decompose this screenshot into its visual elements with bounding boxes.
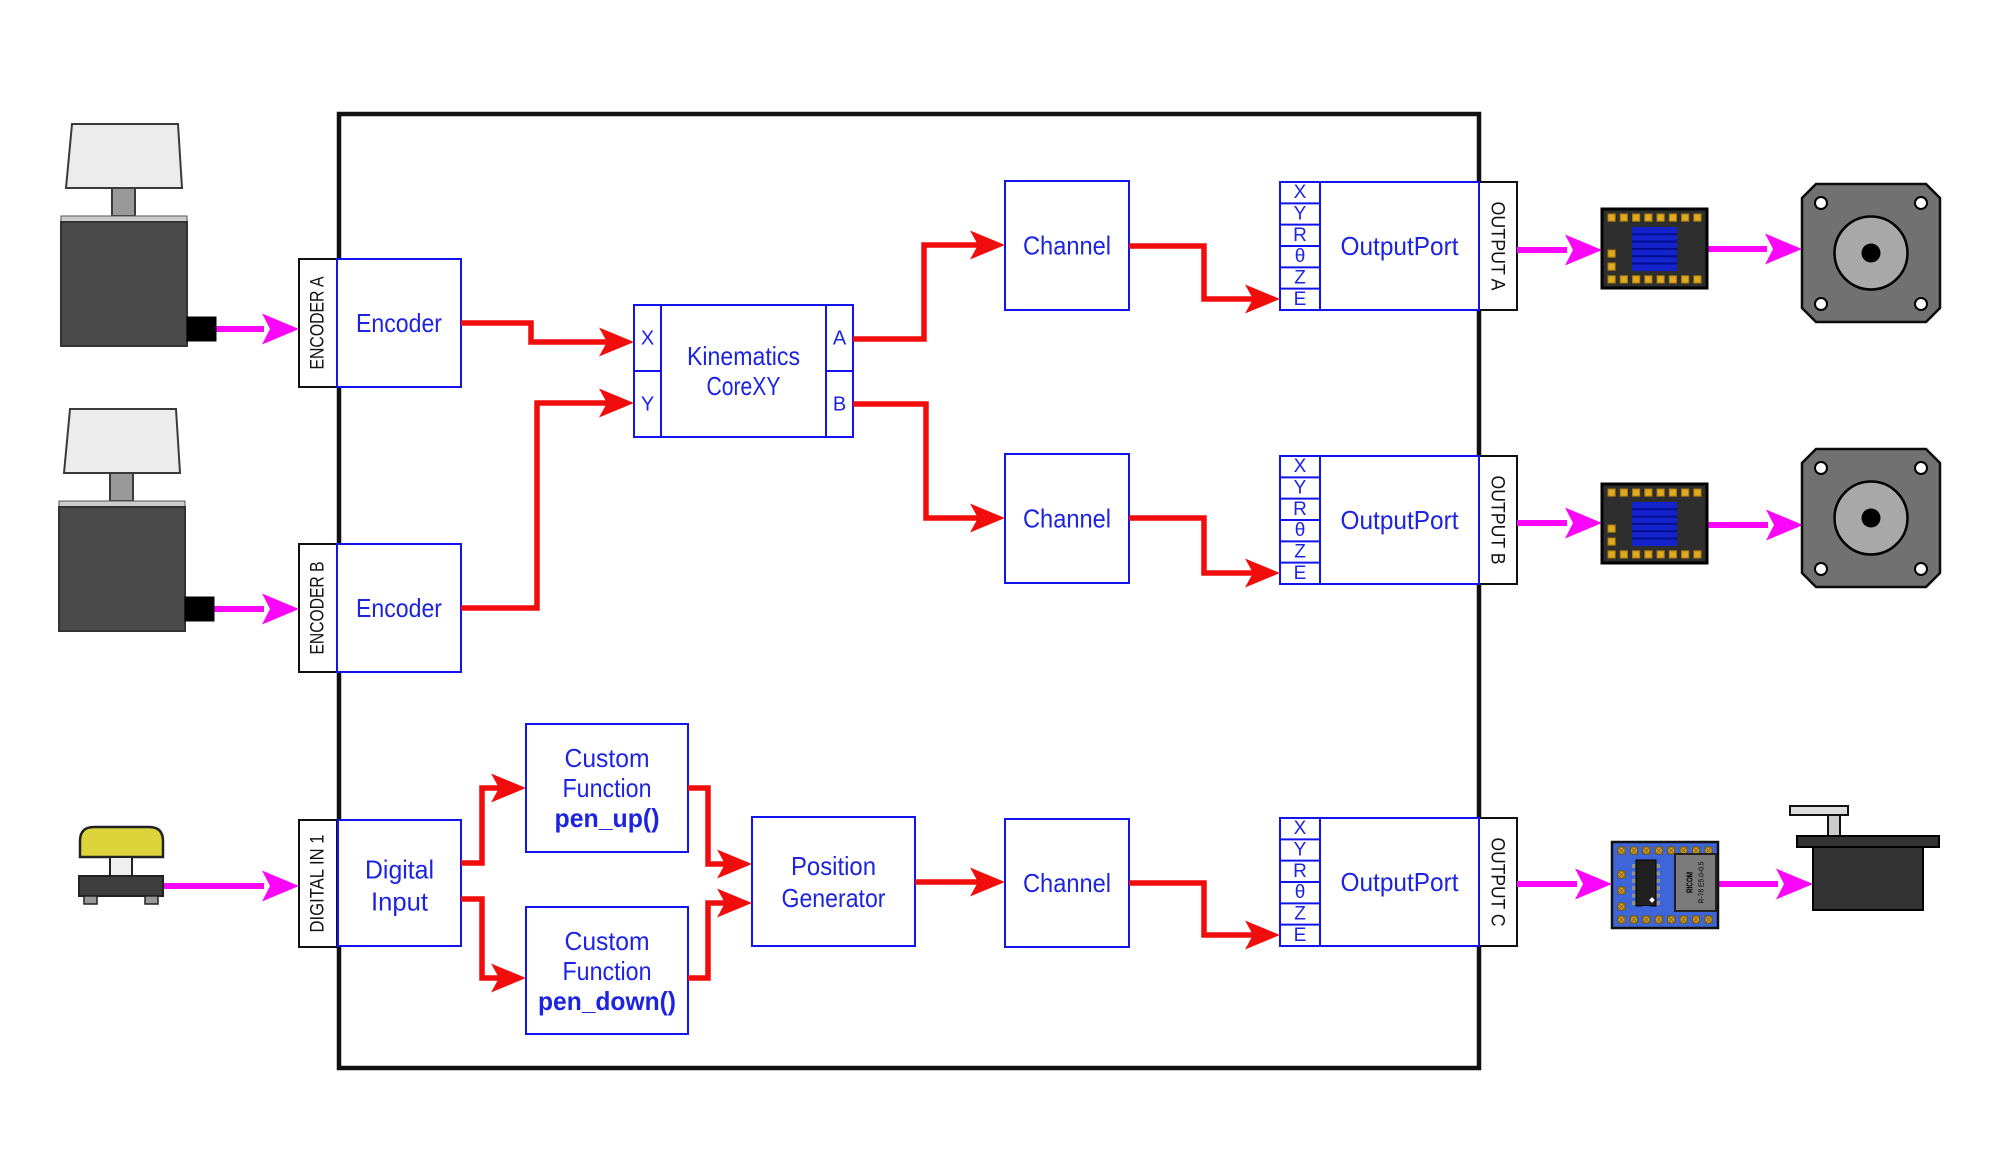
main controller box outline: [339, 114, 1479, 1068]
svg-text:Input: Input: [371, 887, 429, 917]
wire Channel A to OutputPort A pin E: [1129, 246, 1280, 314]
block OutputPort A with pins X Y R theta Z E: [1280, 182, 1479, 310]
svg-text:R: R: [1293, 225, 1307, 246]
svg-text:E: E: [1294, 563, 1307, 584]
block Channel B: [1005, 454, 1129, 583]
svg-text:Position: Position: [791, 851, 876, 881]
svg-text:OUTPUT A: OUTPUT A: [1487, 202, 1509, 291]
svg-text:Custom: Custom: [565, 926, 650, 956]
device rotary encoder A (motor with handwheel): [61, 124, 216, 346]
svg-text:Y: Y: [641, 394, 654, 416]
block Encoder A: [337, 259, 461, 387]
device servo motor with horn: [1790, 806, 1939, 910]
wire Digital Input to pen_up: [461, 774, 526, 864]
svg-text:R: R: [1293, 861, 1307, 882]
svg-text:Function: Function: [563, 956, 652, 986]
svg-text:Channel: Channel: [1023, 231, 1111, 261]
svg-text:OUTPUT C: OUTPUT C: [1487, 838, 1509, 927]
svg-text:Z: Z: [1294, 268, 1306, 289]
block Encoder B: [337, 544, 461, 672]
wire Digital Input to pen_down: [461, 899, 526, 993]
svg-text:Encoder: Encoder: [356, 593, 442, 623]
svg-text:Channel: Channel: [1023, 504, 1111, 534]
svg-text:OutputPort: OutputPort: [1341, 231, 1460, 261]
port ENCODER A: [299, 259, 337, 387]
device voltage regulator PCB RECOM R-78E5.0-0.5: [1612, 842, 1718, 928]
block Kinematics CoreXY U-KIN: [634, 305, 853, 437]
device stepper motor B (NEMA face): [1802, 449, 1940, 587]
svg-text:ENCODER A: ENCODER A: [307, 277, 329, 370]
svg-text:Function: Function: [563, 773, 652, 803]
wire Encoder A to Kinematics X: [461, 323, 634, 357]
wire Kinematics B to Channel B: [853, 404, 1005, 533]
port OUTPUT A: [1479, 182, 1517, 310]
wire Kinematics A to Channel A: [853, 231, 1005, 340]
svg-text:Kinematics: Kinematics: [687, 341, 800, 371]
svg-text:E: E: [1294, 289, 1307, 310]
device stepper driver B (chip): [1602, 484, 1707, 563]
port OUTPUT B: [1479, 456, 1517, 584]
wire port OUTPUT C to voltage regulator: [1517, 869, 1612, 900]
svg-text:Channel: Channel: [1023, 868, 1111, 898]
port OUTPUT C: [1479, 818, 1517, 946]
block Channel A: [1005, 181, 1129, 310]
svg-text:X: X: [1294, 182, 1307, 203]
svg-text:CoreXY: CoreXY: [707, 371, 781, 401]
svg-text:RICOM: RICOM: [1686, 872, 1695, 893]
svg-text:Y: Y: [1294, 840, 1307, 861]
wire Position Generator to Channel C: [915, 868, 1005, 897]
device limit switch (yellow button): [79, 827, 163, 904]
wire pen_down to Position Generator: [688, 889, 752, 979]
svg-text:Y: Y: [1294, 478, 1307, 499]
device stepper motor A (NEMA face): [1802, 184, 1940, 322]
wire encoder B device to port ENCODER B: [213, 594, 299, 625]
svg-text:Z: Z: [1294, 542, 1306, 563]
port DIGITAL IN 1: [299, 820, 337, 947]
svg-text:Custom: Custom: [565, 743, 650, 773]
block Position Generator: [752, 817, 915, 946]
svg-text:Z: Z: [1294, 904, 1306, 925]
block OutputPort C with pins X Y R theta Z E: [1280, 818, 1479, 946]
wire Channel B to OutputPort B pin E: [1129, 518, 1280, 588]
port ENCODER B: [299, 544, 337, 672]
svg-text:OutputPort: OutputPort: [1341, 505, 1460, 535]
svg-text:X: X: [641, 328, 654, 350]
svg-text:X: X: [1294, 456, 1307, 477]
block Custom Function pen_down(): [526, 907, 688, 1034]
svg-text:OutputPort: OutputPort: [1341, 867, 1460, 897]
svg-text:ENCODER B: ENCODER B: [307, 562, 329, 655]
wire stepper driver B to stepper motor B: [1706, 510, 1803, 541]
svg-text:θ: θ: [1295, 520, 1306, 541]
svg-text:θ: θ: [1295, 882, 1306, 903]
block Channel C: [1005, 819, 1129, 947]
block Custom Function pen_up(): [526, 724, 688, 852]
wire port OUTPUT A to stepper driver A: [1517, 235, 1602, 266]
wire voltage regulator to servo: [1718, 869, 1813, 900]
svg-text:R: R: [1293, 499, 1307, 520]
wire pen_up to Position Generator: [688, 788, 752, 879]
wire encoder A device to port ENCODER A: [216, 314, 299, 345]
svg-text:B: B: [833, 394, 846, 416]
svg-text:DIGITAL IN 1: DIGITAL IN 1: [307, 835, 329, 933]
svg-text:Digital: Digital: [365, 855, 434, 885]
svg-text:Generator: Generator: [782, 883, 886, 913]
device stepper driver A (chip): [1602, 209, 1707, 288]
svg-text:θ: θ: [1295, 246, 1306, 267]
device rotary encoder B (motor with handwheel): [59, 409, 214, 631]
block Digital Input: [338, 820, 461, 946]
svg-text:pen_up(): pen_up(): [555, 803, 660, 833]
wire Channel C to OutputPort C pin E: [1129, 883, 1280, 950]
svg-text:A: A: [833, 328, 847, 350]
svg-text:X: X: [1294, 818, 1307, 839]
wire limit switch to port DIGITAL IN 1: [163, 871, 299, 902]
svg-text:E: E: [1294, 925, 1307, 946]
wire Encoder B to Kinematics Y: [461, 389, 634, 609]
svg-text:pen_down(): pen_down(): [538, 986, 676, 1016]
wire stepper driver A to stepper motor A: [1707, 234, 1802, 265]
svg-text:Y: Y: [1294, 204, 1307, 225]
block OutputPort B with pins X Y R theta Z E: [1280, 456, 1479, 584]
svg-text:R-78 E5.0-0.5: R-78 E5.0-0.5: [1697, 862, 1706, 904]
svg-text:OUTPUT B: OUTPUT B: [1487, 476, 1509, 565]
wire port OUTPUT B to stepper driver B: [1517, 508, 1602, 539]
svg-text:Encoder: Encoder: [356, 308, 442, 338]
